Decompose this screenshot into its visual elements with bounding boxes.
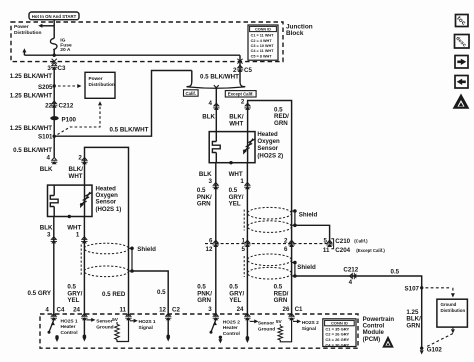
svg-text:Signal: Signal	[302, 326, 316, 332]
svg-text:C1 = 35 GRY: C1 = 35 GRY	[325, 326, 349, 331]
svg-text:C4: C4	[57, 306, 65, 313]
svg-text:(HO2S 2): (HO2S 2)	[257, 152, 283, 159]
svg-text:1.25 BLK/WHT: 1.25 BLK/WHT	[10, 73, 53, 80]
svg-text:HO2S 2: HO2S 2	[302, 320, 319, 326]
svg-text:C1: C1	[295, 306, 303, 313]
svg-text:11: 11	[323, 247, 330, 254]
svg-text:C5: C5	[244, 67, 252, 74]
svg-text:C4 = 30 GRY: C4 = 30 GRY	[325, 342, 349, 347]
svg-text:Control: Control	[223, 331, 240, 337]
svg-text:Power: Power	[89, 76, 103, 81]
svg-text:1: 1	[240, 178, 244, 185]
svg-text:2: 2	[284, 238, 288, 245]
svg-text:0.5 BLK/WHT: 0.5 BLK/WHT	[200, 74, 239, 81]
svg-text:HO2S 1: HO2S 1	[139, 319, 156, 325]
svg-text:5V: 5V	[112, 317, 119, 323]
svg-text:HO2S 1: HO2S 1	[61, 318, 78, 324]
svg-text:WHT: WHT	[229, 120, 243, 127]
svg-text:Ground: Ground	[441, 302, 457, 307]
svg-text:4: 4	[47, 155, 51, 162]
svg-text:HO2S 2: HO2S 2	[223, 319, 240, 325]
svg-text:3: 3	[47, 231, 51, 238]
svg-text:Distribution: Distribution	[14, 30, 41, 36]
svg-text:CONN ID: CONN ID	[255, 28, 271, 32]
svg-text:2: 2	[241, 99, 245, 106]
svg-text:Power: Power	[14, 24, 29, 30]
svg-text:0.5 BLK/WHT: 0.5 BLK/WHT	[110, 126, 149, 133]
svg-text:Ground: Ground	[96, 324, 113, 330]
svg-text:BLK: BLK	[202, 114, 215, 121]
svg-text:GRN: GRN	[274, 297, 288, 304]
svg-text:12: 12	[159, 307, 166, 314]
svg-text:(Calif.): (Calif.)	[354, 239, 368, 244]
svg-text:0.5: 0.5	[157, 289, 166, 296]
svg-text:C4 = 11 WHT: C4 = 11 WHT	[251, 49, 275, 53]
svg-text:S107: S107	[405, 285, 420, 292]
svg-text:1.25 BLK/WHT: 1.25 BLK/WHT	[10, 92, 53, 99]
svg-text:24: 24	[237, 306, 244, 313]
svg-text:3: 3	[208, 306, 212, 313]
svg-text:(PCM): (PCM)	[363, 336, 381, 343]
svg-text:C210: C210	[335, 238, 350, 245]
svg-text:Calif.: Calif.	[186, 91, 197, 96]
svg-text:CONN ID: CONN ID	[331, 321, 348, 326]
svg-text:2: 2	[233, 67, 237, 74]
svg-text:0.5 RED: 0.5 RED	[102, 291, 126, 298]
svg-text:C1 = 11 WHT: C1 = 11 WHT	[251, 34, 275, 38]
svg-text:5V: 5V	[276, 319, 283, 325]
svg-text:Control: Control	[61, 330, 78, 336]
svg-text:P100: P100	[62, 117, 77, 124]
svg-text:C3: C3	[58, 65, 66, 72]
svg-text:GRN: GRN	[406, 322, 420, 329]
svg-text:Sensor: Sensor	[257, 145, 278, 152]
svg-text:26: 26	[283, 306, 290, 313]
svg-text:G102: G102	[427, 346, 443, 353]
svg-text:BLK: BLK	[40, 166, 53, 173]
svg-text:3: 3	[47, 65, 51, 72]
svg-text:6: 6	[284, 246, 288, 253]
svg-text:12: 12	[206, 246, 213, 253]
svg-text:Block: Block	[286, 30, 304, 37]
svg-text:Sensor: Sensor	[258, 320, 274, 326]
svg-text:YEL: YEL	[229, 201, 241, 208]
svg-text:1: 1	[76, 231, 80, 238]
svg-text:4: 4	[209, 100, 213, 107]
svg-text:YEL: YEL	[67, 297, 79, 304]
svg-text:C3 = 10 WHT: C3 = 10 WHT	[251, 44, 275, 48]
svg-text:C212: C212	[343, 267, 358, 274]
svg-text:Ground: Ground	[258, 326, 275, 332]
svg-text:Hot In ON And START: Hot In ON And START	[32, 14, 77, 19]
svg-text:4: 4	[349, 279, 353, 286]
svg-text:Shield: Shield	[299, 211, 318, 218]
svg-text:0.5 BLK/WHT: 0.5 BLK/WHT	[13, 147, 52, 154]
svg-text:Sensor: Sensor	[96, 199, 117, 206]
svg-text:Oxygen: Oxygen	[257, 138, 280, 145]
svg-text:3: 3	[209, 178, 213, 185]
svg-text:C212: C212	[59, 103, 74, 110]
svg-text:5: 5	[242, 246, 246, 253]
svg-text:5: 5	[324, 238, 328, 245]
svg-text:(Except Calif.): (Except Calif.)	[356, 248, 385, 253]
svg-text:4: 4	[45, 306, 49, 313]
svg-text:Distribution: Distribution	[89, 82, 115, 87]
svg-text:Signal: Signal	[139, 325, 153, 331]
svg-text:S101: S101	[38, 134, 53, 141]
svg-text:C2 = 26 GRY: C2 = 26 GRY	[325, 332, 349, 337]
svg-text:GRN: GRN	[274, 120, 288, 127]
svg-text:Distribution: Distribution	[441, 308, 466, 313]
svg-text:Sensor: Sensor	[96, 318, 112, 324]
svg-text:GRN: GRN	[197, 201, 211, 208]
svg-text:C204: C204	[335, 247, 350, 254]
svg-text:C5 = 8 WHT: C5 = 8 WHT	[251, 54, 273, 58]
svg-text:WHT: WHT	[67, 225, 81, 232]
svg-text:Shield: Shield	[297, 264, 316, 271]
svg-text:Heater: Heater	[61, 324, 76, 330]
svg-text:24: 24	[73, 306, 80, 313]
svg-text:S205: S205	[38, 84, 53, 91]
svg-text:6: 6	[209, 238, 213, 245]
svg-text:(HO2S 1): (HO2S 1)	[96, 206, 122, 213]
svg-text:Heater: Heater	[223, 325, 238, 331]
svg-text:GRN: GRN	[197, 297, 211, 304]
svg-text:0.5: 0.5	[391, 269, 400, 276]
svg-text:C3 = 26 GRY: C3 = 26 GRY	[325, 337, 349, 342]
svg-text:Except Calif.: Except Calif.	[228, 92, 254, 97]
svg-text:YEL: YEL	[229, 297, 241, 304]
svg-text:1: 1	[242, 238, 246, 245]
svg-text:Shield: Shield	[137, 246, 156, 253]
svg-text:C2 = 4 WHT: C2 = 4 WHT	[251, 39, 273, 43]
svg-text:0.5 GRY: 0.5 GRY	[28, 290, 52, 297]
svg-text:1.25 BLK/WHT: 1.25 BLK/WHT	[10, 125, 53, 132]
svg-text:WHT: WHT	[69, 173, 83, 180]
svg-text:C2: C2	[172, 307, 180, 314]
svg-text:20 A: 20 A	[60, 47, 71, 53]
svg-text:11: 11	[119, 307, 126, 314]
